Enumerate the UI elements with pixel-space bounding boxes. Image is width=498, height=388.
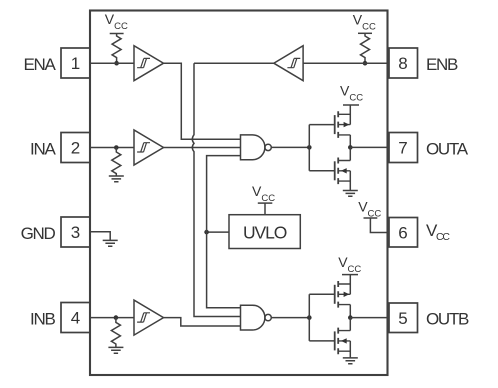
svg-text:8: 8 — [398, 54, 407, 73]
svg-text:INB: INB — [30, 309, 55, 328]
wire buffer ENA out to NAND A input 1 — [164, 63, 241, 139]
Vcc symbol above UVLO — [252, 183, 275, 204]
pin 8 box — [389, 48, 418, 78]
svg-text:VCC: VCC — [252, 183, 275, 204]
IC body — [90, 11, 388, 376]
wire pin3 to ground — [90, 232, 110, 241]
wire OUTA to pin7 — [350, 146, 389, 148]
wire Vcc to UVLO — [264, 203, 266, 215]
node INA — [114, 145, 119, 150]
svg-text:VCC: VCC — [353, 12, 376, 33]
Vcc symbol above OUTB stage — [338, 254, 361, 275]
wire Q2 source to ground — [349, 171, 351, 191]
node ENA — [114, 61, 119, 66]
pin 5 box — [389, 303, 418, 333]
svg-text:7: 7 — [398, 139, 407, 158]
wire pin6 to Vcc — [370, 218, 389, 233]
svg-text:OUTB: OUTB — [426, 309, 469, 328]
pin 7 box — [389, 133, 418, 163]
wire pin4 to buffer INB — [90, 317, 134, 319]
pin 6 box — [389, 218, 418, 248]
pin 2 box — [61, 133, 90, 163]
schmitt buffer ENA — [134, 46, 164, 81]
wire UVLO to NAND A input 3 and NAND B input 1 — [207, 156, 241, 308]
wire Q4 source to ground — [349, 341, 351, 358]
ground INB resistor — [108, 347, 123, 353]
wire pin2 to buffer INA — [90, 147, 134, 149]
transistor Q1 upper PMOS OUTA — [335, 111, 351, 138]
wire gates OUTB stage — [309, 294, 334, 341]
wire OUTB to pin5 — [350, 317, 389, 319]
svg-text:VCC: VCC — [338, 254, 361, 275]
schmitt buffer INA — [134, 130, 164, 165]
svg-text:2: 2 — [71, 139, 80, 158]
transistor Q4 lower NMOS OUTB — [335, 328, 351, 355]
svg-text:6: 6 — [398, 223, 407, 242]
pin 1 box — [61, 48, 90, 78]
resistor ENB pull-up — [361, 33, 370, 63]
node ENB — [363, 61, 368, 66]
resistor ENA pull-up — [112, 34, 121, 64]
svg-text:3: 3 — [71, 223, 80, 242]
resistor INB pull-down — [111, 318, 120, 348]
NAND gate A — [241, 135, 272, 160]
svg-text:ENA: ENA — [23, 55, 56, 74]
wire NAND A out — [271, 146, 309, 148]
UVLO block — [229, 215, 300, 249]
Vcc symbol top-right — [353, 12, 376, 34]
Vcc symbol above OUTA stage — [340, 83, 363, 106]
resistor INA pull-down — [112, 148, 121, 177]
ground OUTA stage — [343, 191, 358, 197]
wire UVLO out — [207, 231, 229, 233]
wire OUTB node to Q4 drain — [349, 318, 351, 331]
svg-text:INA: INA — [30, 139, 56, 158]
Vcc symbol pin6 — [358, 199, 381, 220]
wire buffer ENB out, vertical with crossover hops, to NAND B input 2 — [192, 63, 273, 316]
svg-text:GND: GND — [21, 224, 56, 243]
wire buffer INA out to NAND A input 2 — [164, 147, 241, 149]
ground OUTB stage — [343, 358, 358, 364]
node INB — [114, 315, 119, 320]
wire pin8 to buffer ENB — [303, 62, 389, 64]
wire Vcc to Q1 drain — [349, 105, 351, 125]
schmitt buffer INB — [134, 300, 164, 335]
pin 4 box — [61, 303, 90, 333]
transistor Q2 lower NMOS OUTA — [335, 158, 351, 185]
svg-text:UVLO: UVLO — [243, 222, 287, 242]
wire OUTA node to Q2 drain — [349, 147, 351, 160]
wire Q1 source to OUTA node — [349, 135, 351, 148]
wire Q3 source to OUTB node — [349, 305, 351, 318]
wire gates OUTA stage — [309, 125, 334, 171]
svg-text:1: 1 — [71, 54, 80, 73]
wire Vcc to Q3 drain — [349, 275, 351, 295]
transistor Q3 upper PMOS OUTB — [335, 281, 351, 308]
wire buffer INB out to NAND B input 3 — [164, 318, 241, 326]
ground INA resistor — [109, 176, 124, 182]
svg-text:VCC: VCC — [426, 221, 450, 243]
svg-text:VCC: VCC — [358, 199, 381, 220]
svg-text:ENB: ENB — [426, 55, 458, 74]
node OUTA — [348, 145, 353, 150]
pin 3 box — [61, 217, 90, 247]
node gate drive B — [307, 315, 312, 320]
wire NAND B out — [271, 317, 309, 319]
schmitt buffer ENB — [274, 46, 303, 81]
svg-text:5: 5 — [398, 309, 407, 328]
svg-text:4: 4 — [71, 309, 80, 328]
Vcc symbol top-left — [105, 11, 128, 34]
svg-text:OUTA: OUTA — [426, 139, 469, 158]
svg-text:VCC: VCC — [340, 83, 363, 104]
NAND gate B — [241, 305, 272, 330]
node OUTB — [348, 315, 353, 320]
svg-text:VCC: VCC — [105, 11, 128, 32]
wire pin1 to buffer A — [90, 62, 134, 64]
node gate drive A — [307, 145, 312, 150]
ground GND pin — [103, 240, 118, 246]
node UVLO — [204, 230, 209, 235]
